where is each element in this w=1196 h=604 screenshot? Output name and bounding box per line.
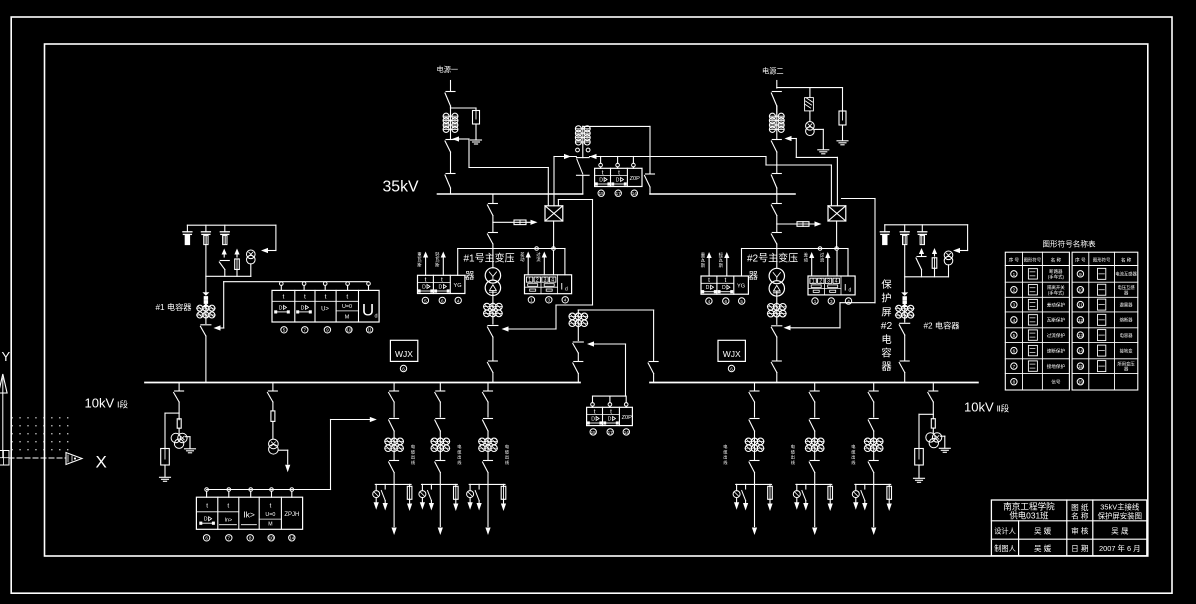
svg-text:M: M	[268, 522, 272, 528]
svg-text:序 号: 序 号	[1009, 257, 1020, 264]
capacitor unit C1a	[183, 225, 192, 244]
svg-text:D: D	[279, 305, 283, 311]
signal number 3b	[828, 298, 834, 304]
signal number 17b	[607, 429, 613, 435]
svg-text:14: 14	[289, 536, 295, 541]
svg-text:I: I	[844, 283, 847, 293]
svg-text:t: t	[618, 169, 620, 176]
svg-text:35kV: 35kV	[383, 179, 419, 196]
svg-text:器: 器	[1124, 290, 1129, 296]
svg-text:2007 年 6 月: 2007 年 6 月	[1099, 544, 1141, 553]
station transformer LV lead	[278, 450, 290, 472]
bus section loop top	[578, 310, 653, 313]
svg-text:d: d	[849, 288, 852, 294]
T2 HV drawout contact	[771, 233, 781, 268]
T1 CT wiring harness top	[458, 247, 565, 251]
svg-text:接地保护: 接地保护	[1047, 363, 1066, 370]
T2 differential relay leads	[809, 249, 848, 277]
svg-text:斯: 斯	[435, 261, 440, 268]
title block school name	[1003, 501, 1055, 521]
incoming line 1 disconnect switch QS11	[445, 92, 455, 107]
svg-text:14: 14	[632, 191, 638, 196]
svg-text:动: 动	[804, 257, 809, 264]
svg-text:熔断器: 熔断器	[1120, 317, 1134, 324]
svg-text:#2号主变压: #2号主变压	[747, 252, 798, 265]
feeder bay F2 (10kV I)	[419, 383, 462, 536]
capacitor unit C2c	[918, 225, 927, 245]
PT bay 2 voltage transformer	[926, 433, 942, 448]
bus tie riser to top loop	[583, 126, 650, 129]
svg-text:吴 晟: 吴 晟	[1111, 527, 1129, 536]
signal number 14	[631, 190, 637, 196]
svg-text:12: 12	[1078, 318, 1084, 323]
svg-text:过流保护: 过流保护	[1047, 332, 1066, 339]
T1 HV drawout contact	[487, 233, 497, 268]
svg-text:制图人: 制图人	[994, 544, 1016, 553]
surge arrester F2 ground	[837, 125, 848, 145]
svg-text:6: 6	[1013, 349, 1016, 354]
svg-text:(手车式): (手车式)	[1048, 273, 1065, 280]
feeder relay feed wire	[207, 417, 377, 490]
PT fuse incoming 2	[805, 88, 814, 122]
svg-text:1: 1	[1013, 272, 1016, 277]
svg-text:15: 15	[599, 191, 605, 196]
incoming line 1 top stub	[450, 81, 452, 92]
UCS Y-axis arrow	[0, 374, 7, 457]
T2 differential lead labels	[804, 252, 825, 264]
svg-text:3: 3	[830, 299, 833, 304]
svg-text:容: 容	[881, 347, 891, 360]
svg-text:WJX: WJX	[723, 349, 741, 359]
svg-text:t: t	[269, 503, 271, 510]
T1 junction with fuse arrow to breaker	[493, 216, 538, 233]
feeder protection relay box ZPJH	[196, 497, 302, 529]
UCS axis label X	[96, 453, 107, 472]
svg-text:U>: U>	[321, 306, 329, 312]
svg-text:11: 11	[1078, 303, 1083, 308]
svg-text:线: 线	[505, 459, 510, 465]
svg-text:线: 线	[411, 459, 416, 465]
svg-text:t: t	[325, 294, 327, 301]
incoming line 1 lower disconnect	[445, 174, 455, 195]
35kV bus section I	[438, 193, 583, 195]
transformer T2 symbol	[769, 268, 784, 296]
svg-text:t: t	[206, 503, 208, 510]
svg-text:1: 1	[814, 299, 817, 304]
svg-text:M: M	[345, 314, 350, 320]
legend table title 图形符号名称表	[1042, 239, 1096, 249]
svg-text:t: t	[227, 503, 229, 510]
capacitor unit C1b	[201, 225, 210, 244]
svg-text:D: D	[439, 285, 443, 291]
svg-text:6: 6	[402, 366, 405, 371]
svg-text:4: 4	[551, 277, 554, 283]
signal number 4c	[706, 298, 712, 304]
cap bank 1 protection relay box	[272, 290, 379, 322]
svg-text:差: 差	[804, 252, 809, 258]
svg-text:10: 10	[269, 536, 275, 541]
svg-text:电: 电	[411, 443, 416, 449]
svg-text:Z0P: Z0P	[630, 176, 641, 182]
cap bay 2 bottom bar	[905, 276, 949, 278]
transformer T1 symbol	[485, 268, 500, 296]
bus section disconnect to bus I	[573, 362, 583, 383]
capacitor bank 2 top bus	[885, 224, 968, 226]
svg-text:6: 6	[205, 536, 208, 541]
svg-text:图形符号: 图形符号	[1024, 257, 1042, 264]
transformer T2 label #2号主变压器	[747, 252, 798, 283]
svg-text:D: D	[608, 417, 612, 423]
svg-text:D: D	[599, 178, 603, 184]
svg-text:14: 14	[1078, 349, 1084, 354]
bus tie chain bottom joins bus I	[577, 175, 590, 194]
tap from incoming 2 to transformer breaker	[796, 139, 837, 206]
cap bay 2 drawout breaker	[899, 318, 910, 360]
svg-text:器: 器	[881, 361, 891, 373]
cap bay 2 disconnect to bus	[899, 361, 909, 383]
svg-text:U: U	[362, 300, 374, 319]
PT bay 1 CT	[177, 419, 181, 428]
UCS X-axis dashed line	[9, 457, 66, 459]
X-breaker QF1 elbow to LV wiring	[558, 200, 592, 206]
svg-text:t: t	[441, 276, 443, 283]
tap from incoming 1 to transformer breaker	[469, 139, 548, 206]
signal number 15b	[590, 429, 596, 435]
surge arrester F1	[473, 108, 480, 124]
svg-text:斯: 斯	[719, 262, 724, 269]
svg-text:电: 电	[505, 443, 510, 449]
incoming source 1 label 电源一	[437, 65, 459, 74]
signal number 6	[439, 297, 445, 303]
svg-text:13: 13	[1078, 333, 1084, 338]
svg-text:5: 5	[1013, 333, 1016, 338]
legend table headers	[1009, 257, 1132, 264]
10kV bus I	[145, 382, 580, 384]
signal number 5c	[281, 327, 287, 333]
svg-text:7: 7	[228, 536, 231, 541]
wire from QF2 around to T2 LV drawout arrow	[784, 199, 876, 331]
title block draftsman row	[994, 543, 1140, 553]
svg-text:YG: YG	[737, 284, 745, 290]
drawing frame inner border	[45, 44, 1148, 556]
svg-text:7: 7	[1013, 364, 1016, 369]
svg-text:6: 6	[730, 366, 733, 371]
legend table rows	[1011, 268, 1138, 385]
svg-text:t: t	[724, 277, 726, 284]
cap bay 1 CT	[196, 303, 215, 319]
incoming line 1 drawout arrow	[452, 136, 469, 141]
svg-text:#2: #2	[881, 321, 893, 332]
svg-text:I: I	[561, 281, 564, 291]
relay box leads with terminals	[599, 157, 635, 169]
svg-text:D: D	[706, 285, 710, 291]
svg-text:t: t	[282, 294, 284, 301]
surge arrester F2	[839, 88, 846, 125]
svg-text:5: 5	[740, 299, 743, 304]
svg-text:器: 器	[749, 271, 759, 282]
svg-text:电: 电	[851, 443, 856, 449]
svg-text:16: 16	[1078, 380, 1084, 385]
svg-text:4: 4	[564, 298, 567, 303]
svg-text:D: D	[301, 305, 305, 311]
svg-text:4: 4	[708, 299, 711, 304]
svg-text:电容器: 电容器	[1120, 332, 1134, 339]
T1 gas relay leads	[423, 249, 458, 276]
cap bay 1 plug contact	[202, 292, 209, 307]
PT bay 2 line	[932, 428, 934, 433]
UCS axis label Y	[2, 349, 11, 364]
surge arrester F1 ground	[471, 124, 482, 144]
voltage transformer TV2	[806, 122, 815, 136]
svg-text:YG: YG	[454, 283, 462, 289]
incoming line 1 junction to arrester	[451, 106, 477, 108]
svg-text:U=0: U=0	[342, 304, 352, 310]
UCS dot grid	[12, 417, 69, 450]
signal number 7	[302, 327, 308, 333]
PT bay 1 arrester branch	[160, 413, 180, 481]
bus tie breaker QF0	[577, 158, 590, 174]
incoming line 2 top junction	[777, 87, 843, 89]
svg-text:8: 8	[249, 536, 252, 541]
incoming line 2 CT TA21	[769, 106, 784, 140]
svg-text:7: 7	[304, 328, 307, 333]
T2 gas relay lead labels	[701, 252, 724, 269]
signal number 4b	[562, 297, 568, 303]
bus section relay drop	[625, 344, 627, 396]
bus section right drop	[653, 310, 655, 361]
10kV bus II label	[964, 400, 1010, 415]
capacitor bank 1 label #1 电容器	[156, 302, 192, 312]
capacitor unit C2a	[880, 225, 889, 245]
signal number 1	[528, 297, 534, 303]
svg-text:(手车式): (手车式)	[1048, 289, 1065, 296]
svg-text:吴 媛: 吴 媛	[1034, 543, 1052, 553]
svg-text:1: 1	[530, 298, 533, 303]
svg-text:D: D	[422, 285, 426, 291]
cap bay 2 discharge contact	[916, 248, 926, 277]
cap bay 2 fuse	[932, 248, 937, 277]
svg-text:差: 差	[520, 251, 525, 257]
T2 LV drawout breaker	[771, 317, 782, 360]
UCS X-axis arrowhead	[66, 453, 82, 465]
signal number 6x	[728, 365, 734, 371]
svg-text:器: 器	[465, 271, 475, 282]
cap bay 2 PT	[944, 251, 953, 277]
svg-text:电源二: 电源二	[762, 67, 784, 76]
bus section disconnect to bus II	[648, 362, 658, 383]
svg-text:电源一: 电源一	[437, 65, 459, 74]
TV2 ground lead	[814, 129, 829, 153]
signal number 5b	[739, 298, 745, 304]
bus tie disconnect at bus II	[645, 174, 655, 194]
svg-text:速断保护: 速断保护	[1047, 347, 1066, 354]
signal number 14b	[623, 429, 629, 435]
incoming line 1 CT TA11	[443, 106, 458, 140]
svg-text:2: 2	[819, 279, 822, 285]
legend table grid	[1005, 252, 1138, 390]
signal number 10	[346, 327, 352, 333]
svg-text:动: 动	[520, 256, 525, 263]
T2 differential relay box Id	[808, 276, 855, 295]
cap bay 1 PT branch frame	[261, 225, 276, 253]
bus tie left arm drop to X-breaker 1	[553, 157, 555, 206]
bus tie right arm elbow to X-breaker 2	[766, 157, 831, 206]
T1 gas relay lead labels	[417, 251, 440, 268]
junction box WJX2	[718, 340, 745, 361]
bus tie drawout contacts	[576, 144, 590, 158]
relay box Z0P (35kV)	[595, 168, 642, 186]
PT bay 1 disconnect below bus	[174, 383, 184, 420]
svg-text:t: t	[610, 408, 612, 415]
cap bay 2 PT branch frame	[953, 225, 968, 253]
T1 LV CT cluster	[483, 291, 502, 317]
svg-text:1: 1	[812, 279, 815, 285]
svg-text:吴 媛: 吴 媛	[1034, 526, 1052, 536]
feeder bay F4 (10kV II)	[723, 383, 772, 536]
title block drawing-name header	[1071, 502, 1089, 521]
svg-text:信号: 信号	[1051, 379, 1061, 386]
feeder bay F5 (10kV II)	[791, 383, 833, 536]
cap bay 1 PT	[247, 250, 256, 276]
title block grid	[991, 500, 1146, 556]
cap bay 1 discharge contact	[219, 249, 229, 277]
wire from harness down to LV drawout arrow	[502, 200, 593, 332]
station transformer CT	[271, 411, 275, 422]
X-breaker QF2 (square-X symbol)	[828, 206, 846, 221]
svg-text:设计人: 设计人	[994, 527, 1016, 536]
cap relay 1 feed wire	[224, 282, 369, 328]
cap bay 1 disconnect to bus	[205, 336, 207, 383]
signal number 6w	[400, 365, 406, 371]
signal number 6z	[203, 535, 209, 541]
svg-text:名 称: 名 称	[1071, 511, 1089, 521]
svg-text:t: t	[425, 276, 427, 283]
svg-text:重: 重	[701, 252, 706, 258]
svg-text:线: 线	[723, 459, 728, 465]
capacitor bank 2 label #2 电容器	[924, 321, 960, 331]
svg-text:5: 5	[283, 328, 286, 333]
T2 HV disconnect below bus	[771, 194, 781, 216]
T1 differential relay leads	[526, 249, 565, 275]
T1 protection relay box left	[418, 275, 465, 293]
PT bay 1 voltage transformer	[171, 433, 187, 448]
svg-text:14: 14	[624, 430, 630, 435]
svg-text:线: 线	[791, 459, 796, 465]
svg-text:3: 3	[544, 277, 547, 283]
svg-text:电: 电	[457, 443, 462, 449]
svg-text:4: 4	[847, 299, 850, 304]
svg-text:电: 电	[791, 443, 796, 449]
svg-text:10kV: 10kV	[85, 396, 115, 411]
signal number 7z	[226, 535, 232, 541]
PT bay 2 CT	[931, 419, 935, 428]
svg-text:4: 4	[457, 298, 460, 303]
svg-text:6: 6	[725, 299, 728, 304]
PT bay 2 ground lead	[939, 436, 950, 452]
bus tie CT TA0	[575, 126, 590, 145]
bus section drawout arrow wire	[587, 341, 626, 346]
svg-text:9: 9	[1079, 272, 1082, 277]
svg-text:ZPJH: ZPJH	[284, 512, 299, 518]
incoming line 2 top stub	[776, 81, 778, 89]
svg-text:名 称: 名 称	[1121, 257, 1132, 264]
X-breaker QF1 bottom lead	[553, 221, 555, 249]
svg-text:保: 保	[881, 278, 892, 291]
feeder relay terminals	[205, 488, 294, 498]
capacitor bank 2 feeder line	[904, 245, 906, 292]
svg-text:10: 10	[346, 328, 352, 333]
signal number 11	[366, 327, 372, 333]
X-breaker QF2 bottom lead	[836, 221, 838, 249]
PT bay 2 disconnect below bus	[928, 383, 938, 419]
capacitor bank 1 top bus	[187, 224, 276, 226]
incoming line 2 breaker QF21	[771, 140, 781, 174]
svg-text:线: 线	[851, 459, 856, 465]
svg-text:斯: 斯	[417, 261, 422, 268]
svg-text:电: 电	[723, 443, 728, 449]
T2 gas relay leads	[707, 249, 742, 277]
signal number 9	[324, 327, 330, 333]
incoming line 2 drawout arrow	[785, 136, 797, 141]
svg-text:WJX: WJX	[395, 349, 413, 359]
svg-text:供电031班: 供电031班	[1009, 511, 1049, 521]
incoming line 1 breaker QF11	[445, 140, 455, 174]
svg-text:Ⅰ段: Ⅰ段	[117, 400, 129, 410]
T1 differential relay box Id	[525, 275, 572, 294]
capacitor unit C2b	[900, 225, 909, 245]
title block designer row	[994, 526, 1129, 536]
svg-text:流: 流	[536, 256, 541, 263]
capacitor unit C1c	[220, 225, 229, 244]
svg-text:D: D	[204, 517, 208, 523]
svg-text:#2 电容器: #2 电容器	[924, 321, 960, 331]
svg-text:t: t	[346, 294, 348, 301]
svg-text:15: 15	[591, 430, 597, 435]
svg-text:t: t	[708, 277, 710, 284]
svg-text:t: t	[602, 169, 604, 176]
incoming source 2 label 电源二	[762, 67, 784, 76]
svg-text:3: 3	[548, 298, 551, 303]
svg-text:Ⅱ段: Ⅱ段	[997, 404, 1010, 414]
signal number 10z	[268, 535, 274, 541]
T1 HV disconnect below bus	[487, 194, 497, 216]
signal number 15	[598, 190, 604, 196]
svg-text:2: 2	[1013, 288, 1016, 293]
svg-text:日 期: 日 期	[1071, 544, 1089, 553]
svg-text:In>: In>	[225, 518, 233, 524]
capacitor bank 1 feeder line	[205, 245, 207, 292]
svg-text:15: 15	[1078, 364, 1084, 369]
station transformer disconnect	[267, 383, 277, 411]
bus section relay box Z0P	[587, 407, 633, 425]
svg-text:图形符号: 图形符号	[1093, 257, 1111, 264]
cap bay 1 fuse	[234, 249, 239, 277]
PT bay 1 ground lead	[185, 437, 196, 453]
svg-text:U=0: U=0	[265, 512, 275, 518]
svg-text:d: d	[565, 286, 568, 292]
svg-text:3: 3	[1013, 303, 1016, 308]
svg-text:电: 电	[881, 333, 891, 346]
svg-text:10kV: 10kV	[964, 400, 994, 415]
svg-text:X: X	[96, 453, 107, 472]
incoming line 2 lower disconnect	[771, 174, 781, 195]
T2 LV disconnect to 10kV bus	[771, 361, 781, 383]
10kV bus II	[650, 382, 978, 384]
svg-text:17: 17	[608, 430, 614, 435]
svg-text:10: 10	[1078, 288, 1084, 293]
T1 differential lead labels	[520, 251, 541, 263]
signal number 4d	[845, 298, 851, 304]
